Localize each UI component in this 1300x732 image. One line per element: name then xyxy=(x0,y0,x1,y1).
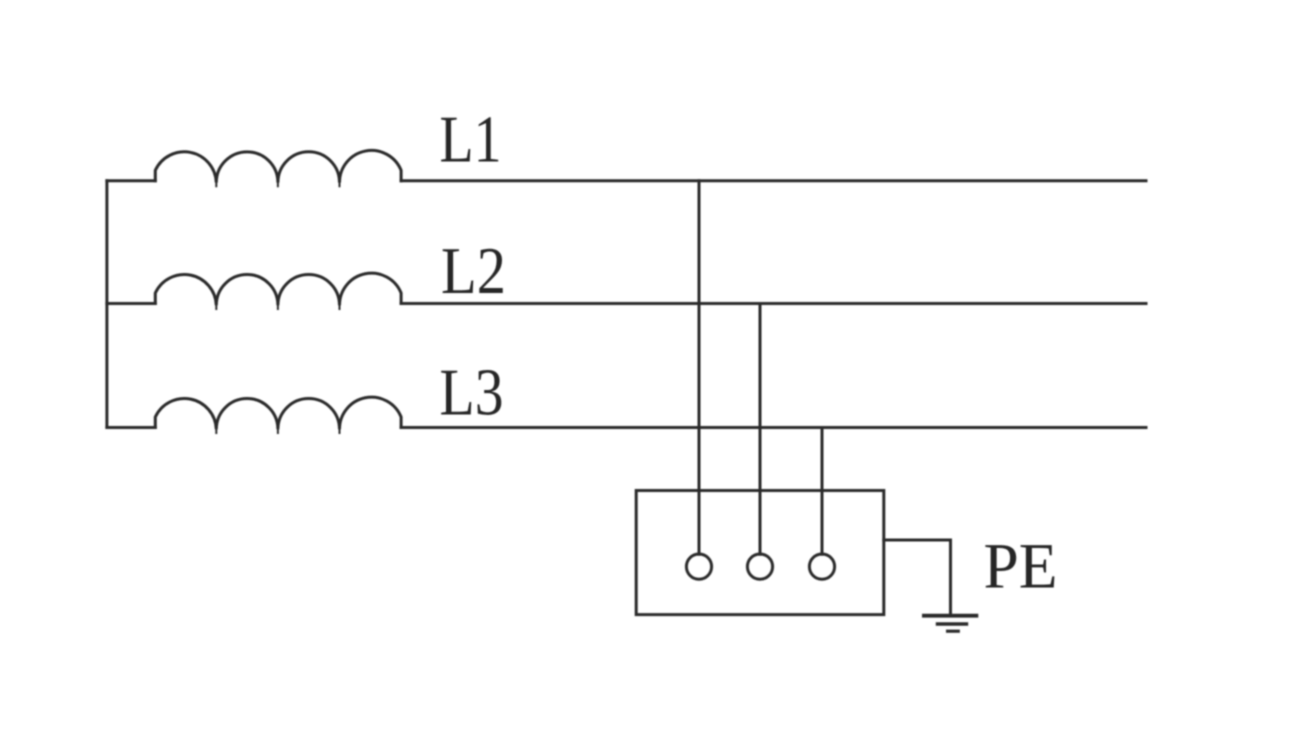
inductor L1 xyxy=(155,150,401,182)
wire L3 entry segment xyxy=(107,426,155,429)
ground symbol xyxy=(922,616,978,632)
wire drop from L2 to arrester terminal 2 xyxy=(759,304,762,555)
wire L1 line to right edge xyxy=(401,179,1146,182)
wire left vertical bus xyxy=(105,181,108,428)
svg-text:L3: L3 xyxy=(440,356,504,430)
terminal circle 3 xyxy=(809,554,834,579)
wire drop from L1 to arrester terminal 1 xyxy=(698,181,701,554)
svg-text:L1: L1 xyxy=(440,103,502,177)
inductor L3 xyxy=(155,397,401,429)
wire L2 line to right edge xyxy=(401,302,1146,305)
inductor L2 cusp tails xyxy=(216,304,339,309)
svg-text:L2: L2 xyxy=(441,234,506,308)
terminal circle 2 xyxy=(747,554,772,579)
svg-text:PE: PE xyxy=(984,530,1058,602)
wire L3 line to right edge xyxy=(401,426,1146,429)
wire L2 entry segment xyxy=(107,302,155,305)
wire PE vertical to ground xyxy=(949,540,952,615)
inductor L1 cusp tails xyxy=(216,181,339,186)
wire PE horizontal from box xyxy=(884,539,951,542)
wire drop from L3 to arrester terminal 3 xyxy=(821,428,824,555)
wire L1 entry segment xyxy=(107,179,155,182)
inductor L2 xyxy=(155,273,401,305)
inductor L3 cusp tails xyxy=(216,428,339,433)
terminal circle 1 xyxy=(686,554,711,579)
surge arrester box xyxy=(636,491,884,615)
